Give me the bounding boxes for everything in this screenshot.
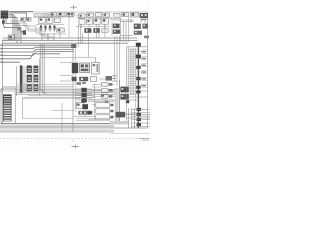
label box L4 — [103, 13, 109, 17]
bus line L4 — [2, 52, 74, 56]
diode D1 — [21, 18, 26, 22]
sub-circuit box outline — [40, 58, 96, 96]
bottom dashed fold line — [0, 138, 150, 140]
diode D5 black — [89, 110, 92, 115]
transistor Q4 dark — [93, 28, 99, 33]
IC U1 dark body — [1, 11, 9, 19]
module M2 box — [92, 62, 100, 74]
ladder white rungs — [4, 96, 11, 121]
junction box JB1 — [71, 44, 76, 48]
wire TR — [76, 16, 112, 18]
label row — [34, 14, 41, 17]
wire fan from U1 — [4, 12, 33, 44]
mesh verticals — [129, 108, 135, 128]
relay K1 — [50, 13, 57, 17]
module M3 dark chunks — [120, 87, 128, 93]
junction dot — [126, 100, 129, 103]
lower gray band 2 — [0, 130, 114, 133]
connector J1 ladder dark top — [3, 94, 12, 104]
faint line bottom right — [110, 133, 150, 135]
stacked box S2 — [96, 109, 110, 113]
capacitor C1 below U1 — [2, 20, 5, 24]
bus line M3 — [3, 42, 129, 44]
label box L3 — [95, 13, 101, 17]
wire staircase to center — [10, 21, 54, 40]
left terminals — [0, 44, 2, 62]
bus line M1 — [3, 37, 138, 39]
vertical trunk x73 — [72, 44, 74, 132]
box B3 — [55, 18, 61, 23]
inner box left edge — [22, 97, 24, 118]
wire TM3 — [39, 33, 66, 35]
vertical x62 bottom — [61, 103, 63, 132]
cluster RB dark — [113, 30, 121, 34]
bus line L1 — [2, 44, 74, 46]
box B7 — [102, 29, 108, 32]
bottom registration mark — [72, 145, 80, 149]
module M1 — [80, 63, 90, 72]
bottom center wires — [76, 118, 113, 121]
small part CM4 — [106, 76, 112, 81]
relay K4 — [131, 12, 139, 17]
tiny text left of strip — [112, 75, 116, 81]
wire CM2 — [60, 75, 72, 77]
bus bend-down wires x40-44 — [40, 44, 46, 94]
box B9 — [76, 103, 84, 109]
inductor row L5 — [78, 111, 92, 115]
box B4 — [57, 28, 64, 32]
connector tab J0 — [3, 39, 13, 41]
frame right border — [147, 12, 149, 128]
small row above array — [77, 82, 81, 85]
relay K3 — [67, 12, 75, 16]
frame bottom border — [1, 123, 114, 125]
vertical trunk x75.2 — [74, 44, 76, 112]
label box L2 — [87, 13, 94, 17]
vertical drops x78-96 — [78, 24, 105, 57]
IC U1 pins — [8, 12, 10, 18]
module M4 dark — [116, 112, 126, 118]
inter-row pins — [82, 17, 105, 29]
module M3 pins right — [129, 88, 148, 100]
connector white gaps bar B — [28, 68, 38, 90]
bus line L3 — [2, 49, 74, 52]
wire CM1 — [60, 61, 72, 63]
array pins — [76, 89, 92, 100]
mesh horizontals — [126, 114, 150, 118]
right box double edge — [126, 47, 128, 123]
cluster RC — [134, 24, 141, 29]
transistor Q6 dark — [82, 104, 88, 109]
diode D2 — [27, 18, 32, 22]
vertical feeders x114-120 — [115, 36, 120, 86]
box B5 — [79, 19, 85, 24]
label box L1 — [79, 14, 85, 18]
bus line L2 — [2, 47, 74, 48]
top registration mark — [70, 5, 77, 10]
wire M4 — [125, 113, 137, 115]
wires array to column — [92, 85, 101, 97]
wire CM5 — [99, 78, 106, 80]
resistor R1 box — [8, 35, 14, 39]
box B8 — [90, 76, 96, 81]
resistor column boxes — [101, 83, 108, 99]
connector P1 bar B chunks — [27, 66, 32, 92]
frame top border — [2, 11, 148, 13]
wire TM0 long — [44, 14, 110, 16]
bus line L6 — [2, 61, 20, 63]
wires center to right column — [88, 100, 115, 122]
transistor Q5 dark — [72, 63, 78, 73]
wires top right mesh — [110, 17, 145, 42]
transistor Q2 — [102, 18, 109, 24]
bus line L5 — [2, 54, 60, 59]
stacked box S1 — [96, 103, 110, 107]
transistor Q3 dark — [84, 28, 91, 33]
box B1 — [39, 18, 45, 24]
diode D4 — [79, 77, 88, 81]
right label boxes — [142, 50, 148, 87]
gray strip — [115, 88, 119, 123]
frame bottom-right line — [110, 127, 148, 129]
vertical feed x94.5 — [94, 84, 96, 119]
extra column parts — [101, 95, 108, 103]
capacitor C2 — [18, 29, 21, 31]
cluster RA dark — [113, 24, 120, 29]
transistor Q1 — [94, 18, 101, 24]
wire CM3 — [60, 80, 70, 82]
bus line M2 — [3, 40, 138, 42]
relay K2 — [58, 12, 65, 16]
wire under box — [52, 110, 74, 112]
capacitor row C5-C8 — [40, 26, 57, 32]
cluster RD — [142, 24, 148, 29]
stacked box S3 — [96, 115, 110, 119]
connector J1 box — [1, 88, 15, 124]
diode D3 — [72, 77, 77, 81]
wires into J1 — [0, 88, 15, 90]
lower gray band 1 — [0, 125, 114, 128]
wires Q6 — [74, 109, 94, 117]
capacitor C3 — [21, 32, 24, 34]
inner box top edge — [23, 96, 95, 98]
box B2 — [47, 18, 53, 24]
array A1 chunks — [81, 88, 86, 103]
vertical line x16.5 — [16, 66, 18, 96]
vertical drops to bus — [42, 32, 60, 41]
strip blobs — [136, 43, 141, 126]
connector pin rungs — [22, 67, 40, 91]
strip rungs lower to edge — [132, 109, 150, 126]
capacitor C4 dark — [23, 30, 26, 35]
strip rungs upper — [127, 49, 141, 85]
cluster RE — [134, 31, 142, 35]
gray strip horizontal — [110, 121, 129, 124]
box B6 — [86, 19, 92, 24]
wire TM2 — [36, 24, 64, 26]
label box R1 — [114, 13, 120, 17]
wire TM1 — [33, 16, 74, 18]
label box R2 — [122, 13, 129, 17]
frame left border — [1, 40, 3, 124]
right box top edge — [127, 46, 148, 48]
terminal strip vertical dark — [137, 43, 139, 129]
connector P1 bar A — [20, 66, 23, 93]
small mark RF — [144, 36, 149, 39]
bottom center dot — [73, 141, 75, 142]
connector J1 ladder mid — [3, 104, 12, 121]
small box A mark — [76, 103, 77, 104]
relay K5 dark — [140, 13, 148, 18]
vertical bus x128-134 — [130, 48, 135, 108]
connector P1 bar C chunks — [34, 66, 39, 92]
inner box bottom edge — [23, 118, 73, 120]
wire TM4 vertical — [68, 17, 70, 39]
title text bottom right — [139, 137, 149, 140]
